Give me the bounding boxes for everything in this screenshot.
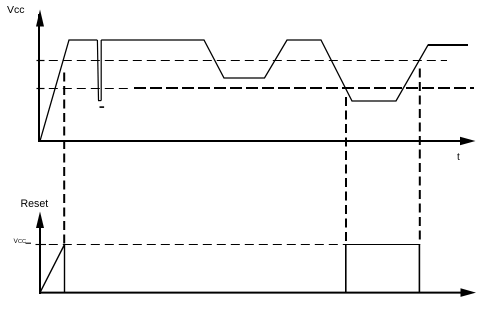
- Reset pulse: [345, 244, 347, 293]
- Vcc waveform: [40, 40, 97, 141]
- Vcc x-axis: [38, 140, 462, 142]
- upper threshold tick on axis: [37, 60, 45, 62]
- Reset x-axis: [39, 292, 462, 294]
- vertical dashed cursor 1: [63, 73, 65, 245]
- Vcc waveform after glitch: [101, 40, 468, 101]
- glitch notch right edge: [100, 40, 102, 101]
- Reset y-axis: [39, 216, 41, 294]
- Reset ramp waveform: [40, 245, 65, 293]
- svg-text:t: t: [457, 152, 460, 163]
- svg-text:CC: CC: [18, 239, 26, 245]
- lower threshold thin dashed segment: [49, 88, 130, 90]
- lower threshold tick on axis: [37, 88, 45, 90]
- Vcc x-axis arrowhead: [460, 137, 476, 146]
- Reset pulse right edge: [418, 244, 420, 293]
- Vcc y-axis arrowhead: [36, 10, 44, 27]
- Reset pulse top: [345, 244, 420, 246]
- Vcc final plateau (bold): [428, 44, 468, 46]
- vertical dashed cursor 3: [419, 69, 421, 245]
- vertical dashed cursor 2: [345, 97, 347, 244]
- Reset y-axis arrowhead: [36, 212, 44, 229]
- glitch notch bottom: [98, 100, 101, 102]
- lower threshold bold dashed segment: [134, 87, 474, 89]
- Reset x-axis arrowhead: [461, 288, 477, 297]
- glitch notch left edge: [97, 40, 98, 100]
- tick from label to dashed level: [26, 242, 32, 244]
- Vcc y-axis: [38, 14, 40, 142]
- upper threshold dashed line: [49, 60, 447, 62]
- svg-text:Vcc: Vcc: [7, 4, 25, 16]
- reset level tick across axis: [36, 244, 47, 246]
- dash mark below glitch: [100, 106, 105, 108]
- svg-text:Reset: Reset: [21, 198, 49, 210]
- reset level dashed line: [49, 244, 346, 246]
